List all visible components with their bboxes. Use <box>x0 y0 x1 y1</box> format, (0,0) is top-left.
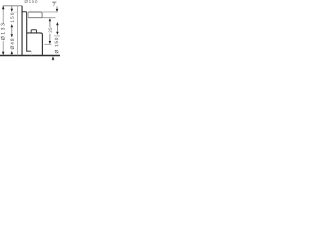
svg-text:Ø 150: Ø 150 <box>54 37 60 54</box>
svg-text:Ø133: Ø133 <box>0 22 6 41</box>
svg-text:150: 150 <box>10 11 15 22</box>
svg-text:7: 7 <box>53 2 56 8</box>
svg-text:Ø48: Ø48 <box>10 37 16 49</box>
svg-text:Ø150: Ø150 <box>24 0 38 4</box>
svg-text:25: 25 <box>48 27 53 33</box>
